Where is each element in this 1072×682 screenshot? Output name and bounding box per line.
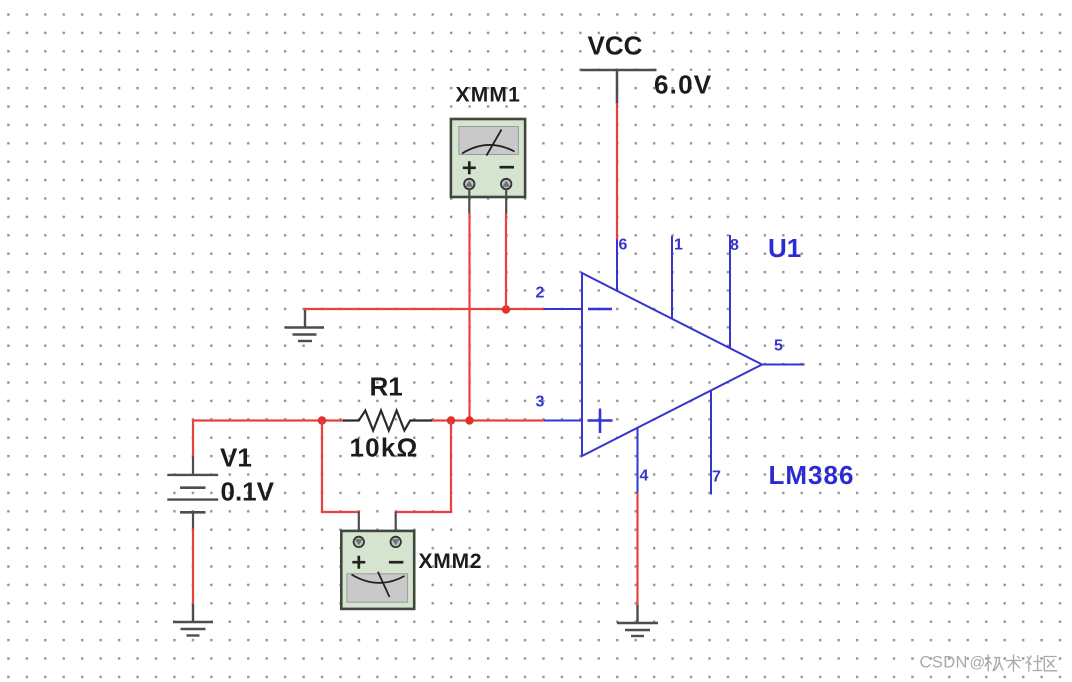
junction dot at (451,420.5) [447, 416, 455, 424]
pin 1 [671, 236, 673, 319]
wire VCC to pin6 [616, 103, 618, 241]
svg-text:10kΩ: 10kΩ [350, 433, 419, 463]
power symbol VCC [581, 70, 657, 104]
junction dot at (469.5,420.5) [465, 416, 473, 424]
svg-text:4: 4 [640, 468, 649, 485]
wire XMM1 plus to pin3 net [468, 213, 470, 421]
svg-text:5: 5 [774, 338, 783, 355]
wire V1 bottom [192, 529, 194, 606]
wire net pin2 (ground to op-amp) [304, 308, 544, 310]
junction dot at (322,420.5) [318, 416, 326, 424]
wire R1 right to XMM2 minus [395, 421, 451, 513]
XMM1 lead plus [468, 189, 470, 214]
source V1 battery [167, 457, 218, 530]
svg-text:0.1V: 0.1V [221, 477, 275, 507]
minus input mark [588, 308, 612, 311]
watermark CSDN [920, 654, 1058, 672]
svg-text:@: @ [970, 655, 986, 672]
XMM1 lead minus [505, 189, 507, 214]
wire XMM1 minus to pin2 net [505, 213, 507, 309]
svg-text:7: 7 [712, 469, 721, 486]
svg-text:6: 6 [619, 237, 628, 254]
pin 3 stub [544, 420, 583, 422]
ground G1 (left) [285, 308, 324, 341]
junction dot at (506,309) [502, 305, 510, 313]
wire net pin3 right segment (R1 to op-amp) [431, 419, 544, 421]
svg-text:6.0V: 6.0V [654, 70, 712, 100]
svg-text:8: 8 [730, 237, 739, 254]
pin 5 [762, 364, 805, 366]
svg-text:1: 1 [674, 237, 683, 254]
svg-text:VCC: VCC [588, 31, 643, 61]
wire net pin3 left segment (V1 to R1) [193, 419, 344, 421]
svg-text:U1: U1 [768, 233, 801, 263]
glyph 极 [985, 655, 1003, 672]
glyph 区 [1044, 657, 1057, 671]
svg-text:3: 3 [536, 394, 545, 411]
glyph 术 [1006, 655, 1022, 672]
multimeter XMM1 [451, 119, 525, 197]
pin 4 [637, 428, 639, 494]
svg-text:XMM2: XMM2 [419, 550, 483, 573]
svg-text:V1: V1 [220, 443, 252, 473]
wire V1 top [192, 420, 194, 458]
svg-text:LM386: LM386 [769, 460, 855, 490]
pin 8 [729, 235, 731, 348]
pin 2 stub [544, 308, 583, 310]
glyph 社 [1026, 655, 1043, 672]
multimeter XMM2 [341, 531, 414, 609]
svg-text:CSDN: CSDN [920, 654, 968, 672]
XMM2 lead minus [395, 512, 397, 537]
XMM2 lead plus [358, 512, 360, 537]
ground G3 (under pin 4) [617, 605, 658, 636]
svg-text:XMM1: XMM1 [456, 84, 521, 107]
ground G2 (under V1) [173, 604, 213, 636]
svg-text:R1: R1 [370, 372, 403, 402]
pin 7 [710, 391, 712, 495]
resistor R1 [343, 411, 432, 431]
op-amp U1 LM386 [544, 235, 805, 495]
plus input mark [588, 409, 613, 434]
pin 6 [616, 240, 618, 292]
svg-text:2: 2 [536, 285, 545, 302]
wire pin4 to ground [636, 493, 638, 606]
wire R1 left to XMM2 plus [322, 421, 360, 513]
